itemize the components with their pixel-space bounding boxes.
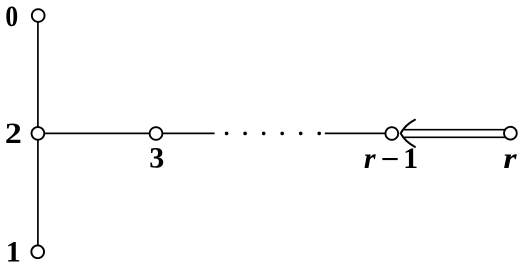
svg-text:3: 3 — [149, 142, 164, 175]
svg-text:0: 0 — [5, 0, 18, 33]
svg-text:2: 2 — [5, 116, 22, 150]
svg-text:1: 1 — [6, 236, 21, 267]
svg-text:1: 1 — [403, 142, 418, 175]
svg-text:r: r — [503, 141, 517, 175]
svg-text:r: r — [364, 142, 376, 175]
svg-text:−: − — [381, 143, 400, 176]
